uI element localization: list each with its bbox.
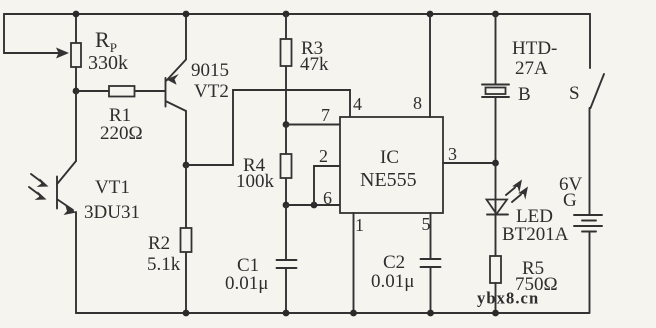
label pin 5 [422, 214, 431, 234]
node dot pin3 junction [492, 160, 499, 167]
svg-text:S: S [569, 83, 580, 104]
svg-text:C2: C2 [383, 252, 405, 273]
wire pin 7 [286, 124, 340, 126]
wire top rail [4, 13, 590, 15]
node dot R4 bottom junction [283, 202, 290, 209]
svg-text:0.01μ: 0.01μ [225, 273, 268, 294]
capacitor C2 [421, 259, 441, 313]
LED BT201A [487, 163, 509, 256]
node dot top rail at VT2 emitter [183, 11, 190, 18]
label pin 6 [323, 188, 332, 208]
wire VT2 collector to pin 4 [186, 90, 350, 165]
wire pin 5 [430, 213, 432, 259]
label S [569, 83, 580, 104]
wire pin 2 link [314, 166, 340, 205]
node dot top rail at pin 8 [427, 11, 434, 18]
op-amp timer IC NE555 U1 [340, 117, 443, 213]
svg-text:G: G [563, 190, 577, 211]
svg-text:9015: 9015 [191, 60, 229, 81]
svg-text:4: 4 [353, 94, 362, 114]
svg-text:8: 8 [413, 93, 422, 113]
node junction dot Rp/R1/VT1 [73, 88, 80, 95]
svg-text:B: B [518, 84, 531, 105]
svg-text:HTD-: HTD- [512, 38, 557, 59]
label LED BT201A [502, 206, 569, 245]
node dot bottom rail at C1 [283, 310, 290, 317]
transistor VT2 9015 PNP [166, 14, 187, 165]
label C1 0.01u [225, 255, 268, 294]
node dot bottom rail at pin1 [350, 310, 357, 317]
svg-text:R2: R2 [148, 233, 170, 254]
label R2 5.1k [147, 233, 181, 275]
node dot top rail at HTD [492, 11, 499, 18]
svg-text:VT2: VT2 [194, 81, 229, 102]
node dot pin2/6 tie [311, 202, 318, 209]
svg-text:5: 5 [422, 214, 431, 234]
wire pin 4 stub label [353, 94, 362, 114]
node dot bottom rail at R5 [492, 310, 499, 317]
node dot bottom rail at C2 [427, 310, 434, 317]
svg-text:2: 2 [319, 146, 328, 166]
label 6V G [559, 174, 583, 211]
wire pin 8 to top rail [429, 14, 431, 117]
wire pin 1 to ground rail [353, 213, 355, 313]
label pin 8 [413, 93, 422, 113]
node dot top rail at Rp [73, 11, 80, 18]
LED light emission arrows [506, 180, 528, 203]
resistor R3 [281, 14, 292, 124]
wire VT1 collector feed [75, 91, 77, 161]
label R3 47k [300, 38, 329, 75]
phototransistor VT1 [57, 161, 77, 313]
svg-text:6: 6 [323, 188, 332, 208]
potentiometer RP [71, 14, 81, 91]
label VT2 9015 [191, 60, 229, 102]
label RP value 330k [88, 27, 128, 74]
switch S [590, 14, 605, 215]
svg-text:BT201A: BT201A [502, 224, 569, 245]
svg-text:27A: 27A [515, 58, 548, 79]
svg-text:VT1: VT1 [95, 177, 130, 198]
wire pin 3 output [443, 162, 496, 164]
battery G 6V [574, 215, 602, 313]
node dot pin7 junction [283, 121, 290, 128]
svg-text:330k: 330k [88, 52, 128, 74]
svg-text:ybx8.cn: ybx8.cn [477, 289, 539, 308]
label pin 1 [355, 215, 364, 235]
svg-text:100k: 100k [236, 171, 275, 192]
svg-text:1: 1 [355, 215, 364, 235]
label R1 220ohm [100, 105, 143, 144]
resistor R2 [181, 165, 192, 313]
watermark ybx8.cn [477, 289, 539, 308]
label R4 100k [236, 155, 275, 192]
label R5 750ohm [515, 258, 558, 295]
svg-text:IC: IC [380, 147, 399, 168]
label C2 0.01u [371, 252, 414, 292]
label VT1 3DU31 [84, 177, 140, 223]
svg-text:47k: 47k [300, 54, 329, 75]
label HTD-27A B [512, 38, 557, 105]
svg-text:NE555: NE555 [360, 169, 417, 191]
svg-text:3DU31: 3DU31 [84, 202, 140, 223]
svg-text:5.1k: 5.1k [147, 254, 181, 275]
resistor R5 [490, 256, 501, 313]
wire pin 6 [286, 204, 340, 206]
wire bottom rail [76, 312, 589, 314]
label pin 2 [319, 146, 328, 166]
piezo sounder B HTD-27A [482, 14, 509, 163]
light arrows into VT1 [29, 174, 49, 200]
node dot bottom rail at R2 [183, 310, 190, 317]
svg-text:3: 3 [448, 144, 457, 164]
label pin 7 [321, 105, 330, 125]
node dot VT2 collector junction [183, 162, 190, 169]
svg-text:220Ω: 220Ω [100, 123, 143, 144]
label pin 3 [448, 144, 457, 164]
capacitor C1 [277, 205, 297, 313]
resistor R1 [76, 86, 165, 97]
resistor R4 [281, 125, 292, 206]
wire wiper loop from top rail to potentiometer [4, 14, 69, 59]
svg-text:0.01μ: 0.01μ [371, 271, 414, 292]
svg-text:7: 7 [321, 105, 330, 125]
node dot top rail at R3 [283, 11, 290, 18]
